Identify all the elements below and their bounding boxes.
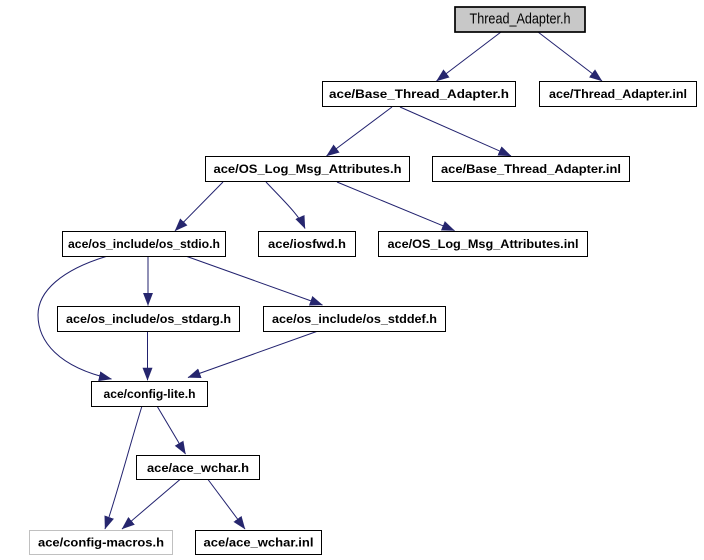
wire edge ace/OS_Log_Msg_Attributes.h -> ace/os_include/os_stdio.h	[175, 182, 223, 231]
wire edge ace/os_include/os_stdio.h -> ace/config-lite.h (left curve)	[38, 257, 112, 380]
node ace/OS_Log_Msg_Attributes.h	[206, 157, 410, 182]
wire edge ace/ace_wchar.h -> ace/ace_wchar.inl	[208, 480, 245, 530]
wire edge ace/OS_Log_Msg_Attributes.h -> ace/iosfwd.h	[266, 182, 305, 229]
wire edge ace/os_include/os_stddef.h -> ace/config-lite.h	[188, 331, 318, 378]
wire edge ace/config-lite.h -> ace/ace_wchar.h	[157, 406, 186, 454]
svg-text:ace/Base_Thread_Adapter.inl: ace/Base_Thread_Adapter.inl	[441, 162, 621, 176]
svg-text:Thread_Adapter.h: Thread_Adapter.h	[470, 11, 571, 28]
wire edge Thread_Adapter.h -> ace/Base_Thread_Adapter.h	[437, 32, 502, 81]
svg-text:ace/OS_Log_Msg_Attributes.inl: ace/OS_Log_Msg_Attributes.inl	[388, 237, 579, 251]
wire edge ace/ace_wchar.h -> ace/config-macros.h	[122, 480, 180, 530]
wire edge ace/config-lite.h -> ace/config-macros.h	[105, 406, 142, 529]
wire edge ace/os_include/os_stdio.h -> ace/os_include/os_stddef.h	[187, 257, 323, 306]
node Thread_Adapter.h (root)	[455, 7, 585, 32]
svg-text:ace/ace_wchar.h: ace/ace_wchar.h	[147, 461, 249, 475]
svg-text:ace/os_include/os_stdarg.h: ace/os_include/os_stdarg.h	[66, 312, 231, 326]
node ace/config-macros.h	[30, 531, 173, 555]
node ace/OS_Log_Msg_Attributes.inl	[379, 232, 588, 257]
svg-text:ace/OS_Log_Msg_Attributes.h: ace/OS_Log_Msg_Attributes.h	[214, 162, 402, 176]
svg-text:ace/ace_wchar.inl: ace/ace_wchar.inl	[204, 536, 314, 550]
node ace/config-lite.h	[92, 382, 208, 407]
svg-text:ace/Base_Thread_Adapter.h: ace/Base_Thread_Adapter.h	[329, 87, 509, 101]
node ace/Thread_Adapter.inl	[540, 82, 697, 107]
wire edge ace/Base_Thread_Adapter.h -> ace/OS_Log_Msg_Attributes.h	[327, 107, 393, 156]
svg-text:ace/config-lite.h: ace/config-lite.h	[104, 387, 196, 401]
node ace/Base_Thread_Adapter.inl	[433, 157, 630, 182]
node ace/os_include/os_stdarg.h	[58, 307, 240, 332]
node ace/os_include/os_stddef.h	[264, 307, 446, 332]
svg-text:ace/iosfwd.h: ace/iosfwd.h	[268, 237, 346, 251]
wire edge Thread_Adapter.h -> ace/Thread_Adapter.inl	[538, 32, 602, 81]
node ace/ace_wchar.h	[137, 456, 260, 480]
svg-text:ace/Thread_Adapter.inl: ace/Thread_Adapter.inl	[549, 87, 687, 101]
node ace/Base_Thread_Adapter.h	[323, 82, 516, 107]
wire edge ace/os_include/os_stdarg.h -> ace/config-lite.h	[147, 331, 149, 380]
wire edge ace/Base_Thread_Adapter.h -> ace/Base_Thread_Adapter.inl	[400, 107, 511, 156]
svg-text:ace/os_include/os_stddef.h: ace/os_include/os_stddef.h	[272, 312, 437, 326]
svg-text:ace/config-macros.h: ace/config-macros.h	[38, 536, 164, 550]
node ace/iosfwd.h	[259, 232, 356, 257]
wire edge ace/os_include/os_stdio.h -> ace/os_include/os_stdarg.h	[147, 257, 149, 306]
node ace/os_include/os_stdio.h	[63, 232, 226, 257]
svg-text:ace/os_include/os_stdio.h: ace/os_include/os_stdio.h	[68, 237, 220, 251]
wire edge ace/OS_Log_Msg_Attributes.h -> ace/OS_Log_Msg_Attributes.inl	[337, 182, 455, 231]
node ace/ace_wchar.inl	[196, 531, 322, 555]
